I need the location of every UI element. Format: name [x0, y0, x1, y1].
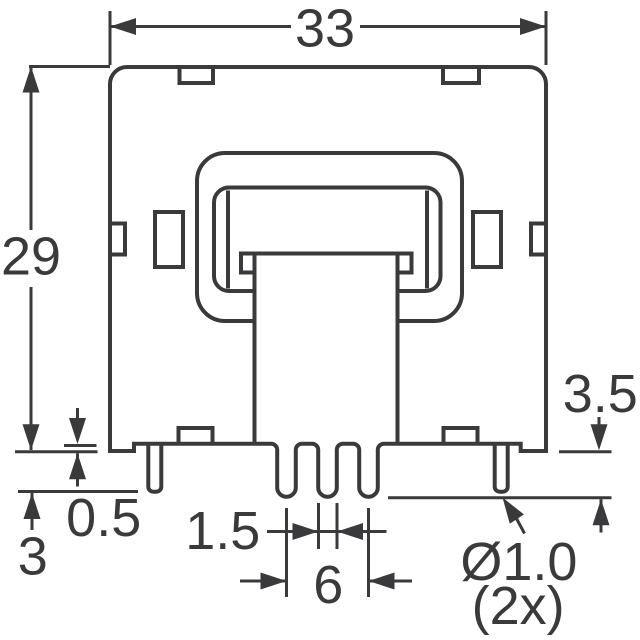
svg-text:3: 3: [18, 527, 48, 587]
svg-text:33: 33: [295, 0, 355, 59]
svg-text:6: 6: [313, 555, 343, 615]
svg-text:(2x): (2x): [472, 576, 565, 636]
svg-text:0.5: 0.5: [66, 488, 141, 548]
svg-text:1.5: 1.5: [185, 501, 260, 561]
svg-text:29: 29: [1, 227, 61, 287]
svg-text:3.5: 3.5: [563, 364, 638, 424]
